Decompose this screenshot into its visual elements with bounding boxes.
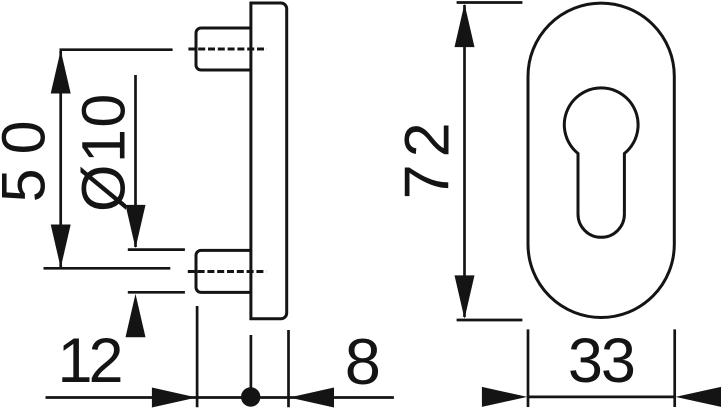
euro profile keyhole: [564, 88, 638, 237]
dim 50: dimension line: [59, 51, 62, 267]
dim 72: arrow down: [455, 275, 475, 318]
dim 72: dimension line: [463, 5, 466, 317]
dim 33: left extension line: [527, 329, 530, 407]
top fixing pin (side view): [196, 28, 252, 70]
dim O10: pin top edge extension: [128, 248, 185, 251]
dim 50: arrow down: [51, 225, 71, 268]
oval escutcheon (front view): [528, 3, 674, 317]
top pin centerline (dashed): [188, 48, 267, 51]
dim 72: top extension line: [457, 1, 523, 4]
dim O10: pin bottom edge extension: [128, 291, 185, 294]
dim 50: top extension line: [60, 48, 173, 51]
dim 33: left arrow (right-pointing): [482, 387, 527, 407]
svg-text:50: 50: [0, 106, 58, 202]
svg-text:8: 8: [345, 325, 381, 398]
dim 12/8: pin tip extension line: [196, 306, 199, 407]
dim 50: arrow up: [51, 50, 71, 93]
dim 33: right extension line: [673, 329, 676, 407]
dim 72: bottom extension line: [457, 319, 523, 322]
svg-text:Ø10: Ø10: [70, 92, 138, 212]
svg-text:33: 33: [568, 326, 634, 396]
dim 12/8: plate back extension line: [287, 330, 290, 407]
dim 33: right arrow (left-pointing, clipped at edge): [676, 387, 721, 407]
bottom fixing pin (side view): [196, 250, 252, 292]
dim 50: bottom extension line: [44, 267, 171, 270]
dim 33: dimension line: [528, 396, 675, 399]
dim O10: upper arrow (down): [126, 205, 146, 248]
svg-text:72: 72: [393, 115, 463, 199]
dim 12/8: dimension line: [46, 396, 394, 399]
svg-text:12: 12: [57, 326, 120, 396]
dim 12: arrow (right): [152, 388, 197, 408]
dim 8: arrow (left): [289, 388, 334, 408]
bottom pin centerline (dashed): [188, 270, 266, 273]
escutcheon plate (side view): [251, 3, 287, 319]
dim O10: lower arrow (up): [126, 294, 146, 337]
dim 12/8: chain dot: [241, 387, 260, 406]
dim 72: arrow up: [455, 4, 475, 47]
dim 12/8: plate front extension line: [250, 335, 253, 406]
dim O10: upper dimension line: [134, 75, 137, 247]
